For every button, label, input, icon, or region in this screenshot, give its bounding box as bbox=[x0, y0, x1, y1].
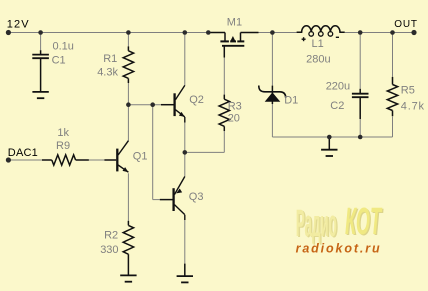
svg-text:0.1u: 0.1u bbox=[53, 40, 74, 52]
svg-text:C2: C2 bbox=[330, 100, 344, 112]
svg-text:220u: 220u bbox=[326, 80, 350, 92]
svg-text:R2: R2 bbox=[104, 230, 118, 242]
svg-text:D1: D1 bbox=[284, 95, 298, 107]
svg-text:C1: C1 bbox=[52, 55, 66, 67]
svg-text:R1: R1 bbox=[103, 53, 117, 65]
svg-text:КОТ: КОТ bbox=[345, 201, 382, 243]
svg-text:L1: L1 bbox=[312, 38, 324, 50]
svg-text:R3: R3 bbox=[228, 101, 242, 113]
svg-text:R5: R5 bbox=[401, 85, 415, 97]
svg-text:4.7k: 4.7k bbox=[401, 101, 425, 113]
svg-text:1k: 1k bbox=[57, 127, 69, 139]
svg-text:12V: 12V bbox=[7, 18, 30, 30]
svg-text:330: 330 bbox=[100, 244, 118, 256]
svg-text:OUT: OUT bbox=[394, 19, 418, 30]
svg-text:Q2: Q2 bbox=[189, 94, 204, 106]
svg-text:Радио: Радио bbox=[296, 203, 337, 245]
svg-text:Q1: Q1 bbox=[133, 150, 148, 162]
svg-text:Q3: Q3 bbox=[189, 191, 204, 203]
svg-text:R9: R9 bbox=[56, 140, 70, 152]
svg-text:4.3k: 4.3k bbox=[97, 67, 118, 79]
svg-text:280u: 280u bbox=[306, 53, 330, 65]
svg-text:20: 20 bbox=[228, 112, 240, 124]
svg-text:radiokot.ru: radiokot.ru bbox=[296, 242, 380, 256]
svg-text:DAC1: DAC1 bbox=[8, 147, 38, 159]
svg-text:M1: M1 bbox=[227, 17, 242, 29]
